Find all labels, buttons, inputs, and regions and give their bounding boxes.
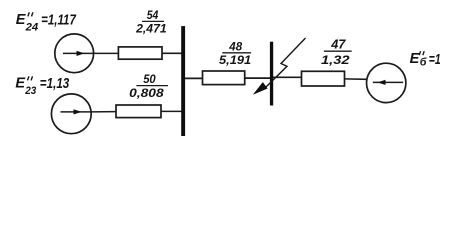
- svg-text:5,191: 5,191: [219, 53, 251, 67]
- fraction bar 50/0,808: [136, 85, 168, 87]
- wire resistor 50/0,808 to bus: [161, 110, 183, 112]
- svg-text:=1: =1: [429, 52, 441, 68]
- resistor 54/2,471: [118, 47, 162, 59]
- wire bus to resistor 48/5,191: [184, 77, 203, 79]
- wire resistor 54/2,471 to bus: [162, 52, 183, 54]
- wire source E23 to resistor 50/0,808: [91, 111, 116, 113]
- svg-text:б: б: [420, 57, 427, 69]
- svg-text:0,808: 0,808: [129, 86, 164, 100]
- resistor 48/5,191: [203, 71, 245, 85]
- source E24 circle: [55, 34, 94, 73]
- fraction bar 54/2,471: [142, 20, 164, 22]
- svg-text:2,471: 2,471: [135, 21, 167, 35]
- arrow inside source E23: [61, 111, 92, 113]
- wire fault bus to resistor 47/1,32: [273, 76, 302, 78]
- fault lightning arrow: [266, 38, 306, 87]
- svg-text:47: 47: [330, 37, 346, 52]
- fraction bar 48/5,191: [222, 52, 251, 54]
- fraction bar 47/1,32: [324, 50, 352, 52]
- svg-text:=1,117: =1,117: [41, 13, 77, 29]
- resistor 50/0,808: [116, 105, 161, 118]
- svg-text:54: 54: [147, 8, 159, 22]
- arrow inside source E24: [63, 52, 94, 54]
- svg-text:1,32: 1,32: [321, 53, 350, 67]
- arrow inside source Eb (points left): [373, 81, 403, 83]
- svg-text:48: 48: [228, 39, 242, 53]
- fault point bus bar: [270, 42, 273, 106]
- source Eb circle: [367, 63, 406, 102]
- svg-text:23: 23: [24, 85, 36, 97]
- svg-text:50: 50: [143, 72, 156, 86]
- resistor 47/1,32: [302, 71, 345, 86]
- wire source E24 to resistor 54/2,471: [94, 52, 119, 54]
- wire resistor 48/5,191 to fault bus: [245, 77, 270, 79]
- source E23 circle: [51, 94, 91, 134]
- wire resistor 47/1,32 to source Eb: [345, 78, 368, 80]
- bus bar (node 24/23 common bus): [181, 26, 185, 136]
- svg-text:24: 24: [25, 22, 39, 34]
- svg-text:=1,13: =1,13: [40, 76, 70, 92]
